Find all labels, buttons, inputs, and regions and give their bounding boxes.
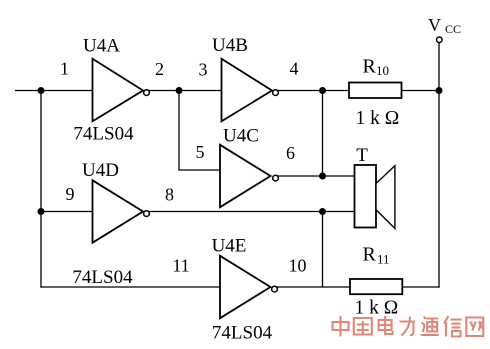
resistor R11 (350, 279, 402, 294)
svg-text:U4E: U4E (212, 236, 247, 257)
svg-text:4: 4 (290, 59, 299, 79)
svg-text:74LS04: 74LS04 (72, 267, 133, 288)
wire vertical from node after U4A down (178, 91, 180, 171)
svg-text:T: T (356, 145, 368, 166)
watermark char guo (354, 318, 372, 335)
U4B output bubble (273, 90, 279, 96)
wire Vcc vertical (438, 43, 440, 288)
svg-text:11: 11 (172, 256, 189, 276)
svg-text:11: 11 (377, 252, 390, 267)
op-amp U4A (93, 59, 144, 122)
U4C output bubble (273, 175, 279, 181)
svg-text:2: 2 (155, 59, 164, 79)
wire U4B output to R10 (277, 90, 349, 92)
U4D output bubble (144, 211, 150, 217)
Vcc terminal (437, 37, 443, 43)
svg-text:V: V (428, 15, 441, 35)
watermark char xin (444, 316, 462, 337)
watermark char tong (421, 317, 439, 336)
svg-text:R: R (363, 56, 377, 78)
node pin2 junction (176, 87, 183, 94)
svg-text:9: 9 (66, 184, 75, 204)
watermark 中国电力通信网 (333, 316, 484, 337)
svg-text:74LS04: 74LS04 (73, 124, 134, 145)
watermark char zhong (333, 316, 349, 337)
svg-text:1: 1 (60, 59, 69, 79)
svg-text:U4B: U4B (212, 35, 248, 56)
wire U4D output to speaker (149, 211, 355, 213)
svg-text:3: 3 (199, 60, 208, 80)
wire U4E output to R11 (276, 286, 350, 288)
wire U4C output to speaker (277, 175, 354, 177)
op-amp U4C (220, 145, 271, 207)
svg-text:U4A: U4A (83, 36, 120, 57)
resistor R10 (349, 83, 402, 99)
wire U4A output to U4B input (148, 90, 222, 92)
node pin6 junction (319, 173, 326, 180)
svg-text:1 k Ω: 1 k Ω (356, 108, 400, 129)
wire vertical from node8 down to U4E output wire (322, 212, 324, 288)
svg-text:10: 10 (376, 63, 389, 78)
speaker T body (355, 165, 377, 228)
U4A output bubble (144, 90, 150, 96)
node Vcc junction (436, 87, 443, 94)
svg-text:1 k Ω: 1 k Ω (355, 298, 399, 319)
wire into U4C pin5 (178, 169, 220, 171)
wire U4D input (41, 211, 93, 213)
svg-text:R: R (363, 244, 377, 266)
svg-text:8: 8 (165, 185, 174, 205)
svg-text:5: 5 (196, 142, 205, 162)
op-amp U4B (222, 59, 273, 122)
node pin4 junction (319, 87, 326, 94)
watermark char dian (379, 316, 393, 334)
svg-text:74LS04: 74LS04 (212, 323, 273, 344)
svg-text:6: 6 (286, 143, 295, 163)
wire input to U4A (15, 90, 93, 92)
wire R11 right to Vcc vertical (402, 286, 440, 288)
U4E output bubble (272, 286, 278, 292)
wire bottom to U4E input (40, 286, 220, 288)
op-amp U4D (93, 180, 144, 242)
svg-text:U4C: U4C (223, 126, 259, 147)
speaker T cone (376, 166, 395, 229)
node pin8 junction (319, 208, 326, 215)
svg-text:U4D: U4D (82, 160, 119, 181)
watermark char li (399, 317, 415, 336)
svg-text:10: 10 (289, 256, 307, 276)
wire left vertical bus (40, 91, 42, 288)
node input junction (38, 87, 45, 94)
svg-text:CC: CC (445, 22, 461, 36)
op-amp U4E (220, 256, 271, 318)
node pin9 junction (38, 208, 45, 215)
watermark char wang (466, 318, 483, 337)
wire R10 to Vcc node (402, 90, 440, 92)
wire mid vertical node2 to node6 (322, 91, 324, 177)
